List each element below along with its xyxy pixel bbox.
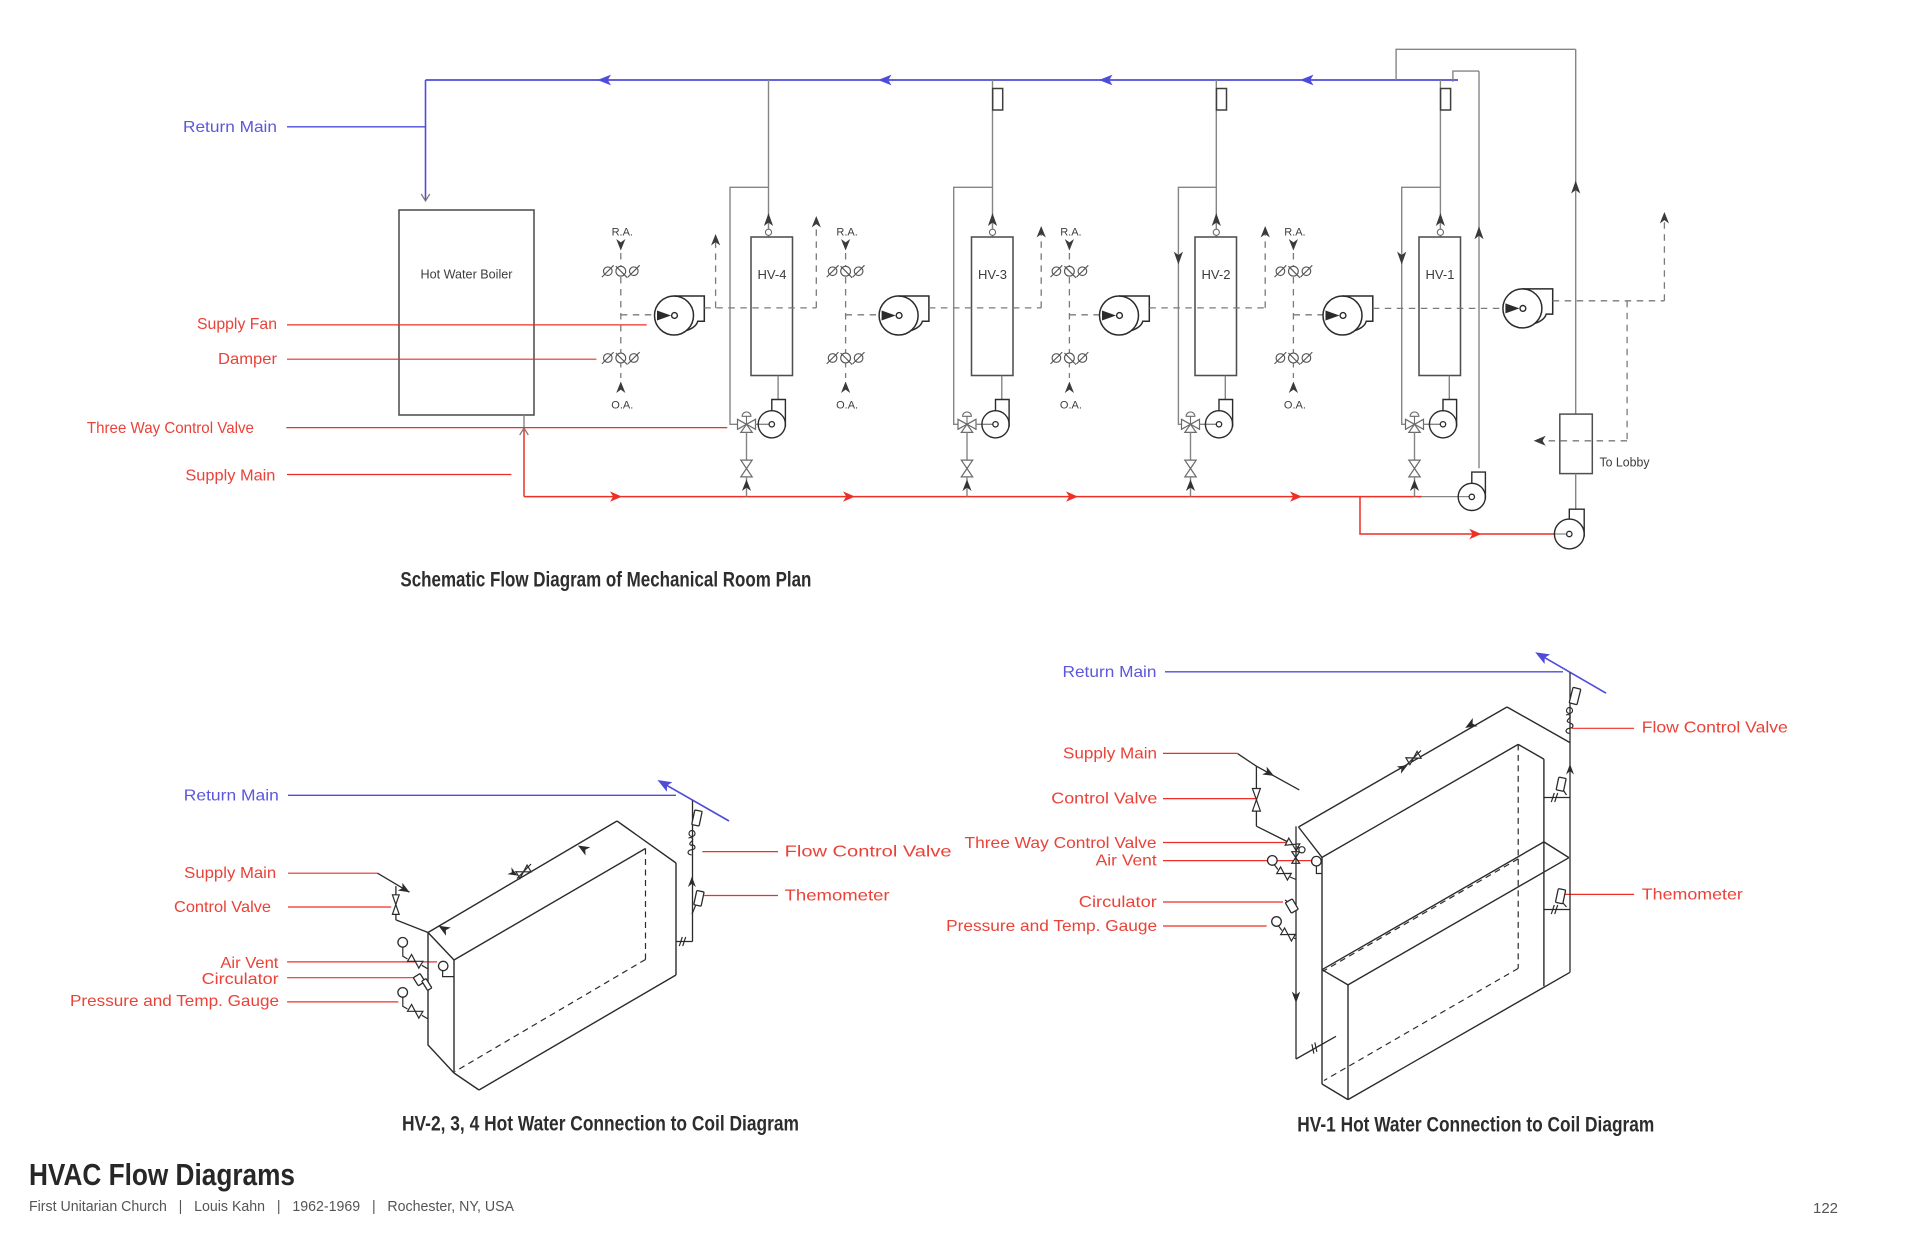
wire HV-2 supply tap	[1190, 477, 1192, 497]
wire HV-2 coil feed	[1224, 376, 1226, 400]
wire to-lobby riser upper	[1575, 49, 1577, 414]
fitting on HV-2 riser	[1217, 89, 1227, 111]
air vent (left diagram)	[439, 961, 448, 970]
supply fan 4	[1323, 296, 1373, 335]
wire supply drop (right diagram)	[1295, 826, 1297, 1059]
label line circulator right	[1163, 901, 1283, 903]
label line flow control valve left	[702, 851, 778, 853]
vent valve cluster (right diagram)	[1268, 856, 1278, 866]
three-way control valve (right diagram)	[1285, 838, 1292, 845]
exhaust arrow 4	[1261, 226, 1270, 238]
wire HV-4 valve to gate valve	[746, 432, 748, 460]
wire HV-1 valve to pump	[1424, 423, 1444, 425]
HV-3 riser flow arrow	[988, 213, 997, 226]
svg-text:HV-3: HV-3	[978, 268, 1007, 282]
wire return main (blue)	[426, 79, 1459, 81]
pipe break (left diagram)	[679, 937, 685, 946]
svg-text:Flow Control Valve: Flow Control Valve	[785, 844, 952, 861]
label line supply fan	[287, 324, 647, 326]
svg-text:Supply Main: Supply Main	[185, 467, 275, 484]
supply main flow arrow 4	[1290, 491, 1302, 501]
return main arrow (left diagram)	[658, 780, 673, 792]
dashed duct to fan 1	[621, 314, 655, 316]
exhaust duct 2	[815, 218, 817, 308]
damper row lower 4	[1275, 352, 1313, 365]
dashed duct to fan 2	[846, 314, 880, 316]
wire HV-3 valve to pump	[976, 423, 996, 425]
wire return pump 2 inlet	[1554, 533, 1569, 535]
coil top jog (right diagram)	[1518, 744, 1544, 759]
svg-text:O.A.: O.A.	[1284, 400, 1306, 412]
circulator (right diagram)	[1285, 899, 1298, 913]
wire supply branch to return pump	[1360, 497, 1554, 534]
svg-text:Air Vent: Air Vent	[1096, 852, 1158, 869]
return main flow arrow 1	[598, 75, 612, 86]
wire return main drop to boiler	[425, 80, 427, 200]
supply branch flow arrow	[1469, 529, 1481, 539]
damper row lower 3	[1051, 352, 1089, 365]
HV-1 riser flow arrow	[1436, 213, 1445, 226]
wire return connector (left diagram)	[676, 941, 693, 943]
svg-text:Supply Fan: Supply Fan	[197, 316, 277, 333]
svg-text:Damper: Damper	[218, 351, 278, 368]
wire HV-2 valve to pump	[1200, 423, 1220, 425]
vent valve cluster (left diagram)	[398, 938, 408, 948]
circulator pump HV-3	[982, 400, 1009, 438]
label line supply main right	[1163, 752, 1238, 754]
label line air vent right	[1163, 860, 1313, 862]
coil lower front-left vertical (right diagram)	[1347, 985, 1349, 1100]
coil hidden bottom edge (right diagram)	[1324, 968, 1518, 1080]
return air dashed duct 3	[1068, 253, 1070, 378]
damper row lower 2	[827, 352, 865, 365]
circulator pump HV-2	[1205, 400, 1232, 438]
return main flow arrow 2	[878, 75, 892, 86]
wire HV-1 supply tap	[1414, 477, 1416, 497]
svg-text:Return Main: Return Main	[183, 119, 277, 136]
coil header pipe (right diagram)	[1299, 707, 1508, 827]
wire HV-1 left return pipe	[1402, 187, 1441, 424]
label line circulator left	[287, 977, 415, 979]
dashed duct fan5 outlet	[1553, 300, 1665, 302]
svg-text:Supply Main: Supply Main	[184, 865, 276, 882]
unit HV-3 box	[972, 237, 1014, 376]
O.A. arrow 3	[1065, 382, 1074, 394]
coil midline upper (right diagram)	[1322, 842, 1544, 970]
control valve (right diagram)	[1252, 789, 1260, 812]
arrowhead supply into boiler	[520, 428, 529, 435]
label line control valve right	[1163, 798, 1255, 800]
flow control valve (right diagram)	[1566, 723, 1573, 733]
wire HV-4 supply tap	[746, 477, 748, 497]
air vent (right diagram)	[1312, 856, 1322, 866]
dashed duct fan3 outlet	[1149, 307, 1265, 309]
header arrow b (right)	[1465, 718, 1477, 728]
coil header pipe top (left diagram)	[428, 821, 617, 933]
lower thermometer connector (right diagram)	[1544, 909, 1570, 911]
label line pressure right	[1163, 925, 1267, 927]
flow element (left diagram)	[692, 810, 702, 826]
wire HV-3 valve to gate valve	[966, 432, 968, 460]
wire HV-3 coil feed	[1001, 376, 1003, 400]
return main arrow (right diagram)	[1535, 652, 1550, 664]
label line supply main	[287, 474, 511, 476]
header arrow into valve	[507, 867, 517, 875]
wire supply main (red)	[523, 430, 525, 497]
R.A. arrow 2	[841, 239, 850, 251]
svg-text:122: 122	[1813, 1200, 1838, 1217]
wire supply diagonal (right diagram)	[1238, 754, 1257, 767]
coil edge top-right (left diagram)	[617, 821, 676, 863]
header flow arrow b	[578, 846, 590, 856]
wire control valve drop (right diagram)	[1255, 766, 1257, 826]
exhaust arrow 1	[711, 234, 720, 246]
svg-text:To Lobby: To Lobby	[1600, 455, 1650, 470]
dashed duct to lobby vertical	[1626, 301, 1628, 441]
coil bottom front edge (right diagram)	[1348, 972, 1570, 1099]
HV-2 supply flow arrow	[1186, 480, 1195, 492]
coil top-left depth edge (right diagram)	[1299, 827, 1323, 857]
supply arrow (right diagram)	[1262, 767, 1274, 776]
wire HV-2 valve to gate valve	[1190, 432, 1192, 460]
pipe break lower (right diagram)	[1309, 1042, 1319, 1053]
damper row lower 1	[602, 352, 640, 365]
pump riser B flow arrow	[1474, 226, 1483, 239]
HV-3 supply flow arrow	[962, 480, 971, 492]
svg-text:Three Way Control Valve: Three Way Control Valve	[965, 835, 1157, 852]
coil bottom front edge (left diagram)	[479, 975, 676, 1090]
O.A. arrow 4	[1289, 382, 1298, 394]
coil front top edge (left diagram)	[454, 849, 646, 961]
svg-text:Control Valve: Control Valve	[1051, 791, 1157, 808]
wire HV-1 coil feed	[1448, 376, 1450, 400]
supply fan 3	[1100, 296, 1150, 335]
coil hidden lower vertical (right diagram)	[1517, 859, 1519, 969]
upper thermometer connector (right diagram)	[1544, 797, 1570, 799]
coil left end face (left diagram)	[428, 933, 454, 1074]
HV-4 riser flow arrow	[764, 213, 773, 226]
svg-text:HVAC Flow Diagrams: HVAC Flow Diagrams	[29, 1157, 295, 1192]
wire HV-3 riser to return main	[992, 80, 994, 237]
return air dashed duct 1	[620, 253, 622, 378]
wire HV-3 left return pipe	[954, 187, 993, 424]
HV-2 riser flow arrow	[1212, 213, 1221, 226]
wire HV-4 coil feed	[777, 376, 779, 400]
supply arrow (left diagram)	[398, 883, 410, 893]
svg-text:O.A.: O.A.	[1060, 400, 1082, 412]
svg-text:Flow Control Valve: Flow Control Valve	[1642, 720, 1788, 737]
return main flow arrow 4	[1300, 75, 1314, 86]
dashed duct fan2 outlet	[929, 307, 1041, 309]
return main flow arrow 3	[1099, 75, 1113, 86]
wire boiler supply outlet	[523, 415, 525, 430]
svg-text:First Unitarian Church | L: First Unitarian Church | Louis Kahn | 19…	[29, 1198, 514, 1215]
coil front top edge (right diagram)	[1322, 744, 1518, 857]
exhaust arrow 5	[1660, 212, 1669, 224]
thermometer (left diagram)	[694, 890, 704, 906]
wire supply diagonal (left diagram)	[378, 873, 410, 892]
HV-2 riser union circle	[1213, 229, 1219, 235]
svg-text:Air Vent: Air Vent	[220, 955, 279, 972]
HV-3 riser union circle	[989, 229, 995, 235]
exhaust duct 5	[1663, 214, 1665, 301]
svg-text:Return Main: Return Main	[184, 787, 279, 804]
coil hidden right edge (left diagram)	[645, 849, 647, 960]
flow element (right diagram)	[1569, 687, 1581, 704]
dashed duct fan4 outlet to fan5	[1373, 307, 1503, 309]
exhaust arrow 3	[1037, 226, 1046, 238]
svg-text:Pressure and Temp. Gauge: Pressure and Temp. Gauge	[70, 993, 279, 1010]
wire HV-4 left return pipe	[730, 187, 769, 424]
gate valve HV-4	[741, 460, 752, 477]
to-lobby riser flow arrow	[1571, 181, 1580, 194]
svg-text:Hot Water Boiler: Hot Water Boiler	[421, 268, 513, 282]
wire lower coil jumper (right diagram)	[1296, 1036, 1336, 1059]
svg-text:HV-1 Hot Water Connection to C: HV-1 Hot Water Connection to Coil Diagra…	[1297, 1113, 1654, 1137]
dashed duct fan1 outlet	[704, 307, 816, 309]
exhaust duct 4	[1264, 228, 1266, 308]
label line return main left	[288, 794, 676, 796]
svg-text:HV-4: HV-4	[758, 268, 787, 282]
dashed duct to lobby horizontal	[1535, 440, 1627, 442]
R.A. arrow 1	[616, 239, 625, 251]
thermometer (right diagram)	[1555, 889, 1565, 904]
svg-text:R.A.: R.A.	[612, 227, 633, 239]
fitting on HV-1 riser	[1441, 89, 1451, 111]
return air dashed duct 2	[845, 253, 847, 378]
circulator pump HV-1	[1429, 400, 1456, 438]
unit HV-4 box	[751, 237, 793, 376]
three-way control valve HV-1	[1406, 412, 1424, 433]
three-way control valve HV-3	[958, 412, 976, 432]
svg-text:R.A.: R.A.	[836, 227, 857, 239]
coil bottom left depth edge (left diagram)	[454, 1073, 479, 1090]
control valve (left diagram)	[392, 895, 399, 915]
coil front-left vertical (left diagram)	[453, 960, 455, 1073]
header arrow into valve (right)	[1397, 765, 1408, 774]
gate valve HV-1	[1409, 460, 1420, 477]
damper row upper 1	[602, 265, 640, 278]
arrowhead into boiler	[421, 194, 430, 201]
circulator (left diagram)	[413, 974, 425, 986]
coil hidden right vertical (right diagram)	[1517, 744, 1519, 859]
unit HV-1 box	[1419, 237, 1461, 376]
damper row upper 3	[1051, 265, 1089, 278]
coil front-left vertical (right diagram)	[1321, 857, 1323, 1084]
supply main flow arrow 2	[843, 491, 855, 501]
label line return main right	[1165, 671, 1563, 673]
wire HV-4 riser to return main	[768, 80, 770, 237]
header valve (right diagram)	[1406, 758, 1414, 765]
svg-text:R.A.: R.A.	[1060, 227, 1081, 239]
svg-text:HV-1: HV-1	[1426, 268, 1455, 282]
pressure gauge cluster (right diagram)	[1272, 917, 1282, 927]
coil hidden bottom edge (left diagram)	[455, 960, 646, 1072]
wire to-lobby riser lower	[1575, 474, 1577, 509]
return riser arrow (right diagram)	[1566, 764, 1574, 775]
O.A. arrow 1	[616, 382, 625, 394]
svg-text:O.A.: O.A.	[611, 400, 633, 412]
squiggle upper (left diagram)	[689, 831, 695, 837]
label line return main	[287, 126, 426, 128]
supply fan 5	[1503, 289, 1553, 328]
label line three way control valve	[286, 427, 727, 429]
HV-1 left pipe flow arrow	[1397, 252, 1406, 265]
balancing valve on header	[516, 872, 524, 879]
supply main flow arrow 3	[1066, 491, 1078, 501]
svg-text:HV-2, 3, 4 Hot Water Connectio: HV-2, 3, 4 Hot Water Connection to Coil …	[402, 1112, 799, 1136]
supply fan 2	[879, 296, 929, 335]
O.A. arrow 2	[841, 382, 850, 394]
boiler Hot Water Boiler	[399, 210, 534, 415]
wire HV-3 supply tap	[966, 477, 968, 497]
wire red main to return pump 1	[1422, 496, 1459, 498]
supply drop arrow (right diagram)	[1292, 992, 1301, 1004]
coil mid jog right (right diagram)	[1544, 842, 1569, 858]
exhaust arrow 2	[812, 216, 821, 228]
label line flow control valve right	[1572, 727, 1634, 729]
wire HV-4 valve to pump	[756, 423, 772, 425]
header flow arrow a	[439, 926, 451, 936]
wire to three-way valve (right diagram)	[1256, 826, 1289, 842]
label line air vent left	[287, 961, 437, 963]
return riser arrow (left diagram)	[688, 877, 696, 888]
svg-text:Themometer: Themometer	[1642, 886, 1744, 903]
label line supply main left	[288, 872, 378, 874]
squiggle upper (right diagram)	[1567, 708, 1573, 714]
HV-1 riser union circle	[1437, 229, 1443, 235]
duct To Lobby box	[1560, 414, 1593, 474]
three-way control valve HV-4	[738, 412, 756, 433]
svg-text:Supply Main: Supply Main	[1063, 745, 1157, 762]
svg-text:Themometer: Themometer	[785, 888, 891, 905]
wire return riser (right diagram)	[1569, 673, 1571, 973]
exhaust duct 1	[715, 236, 717, 308]
flow control valve (left diagram)	[688, 845, 695, 855]
label line themometer right	[1565, 893, 1634, 895]
dashed duct to fan 3	[1069, 314, 1099, 316]
wire pump riser B	[1478, 71, 1480, 468]
svg-text:O.A.: O.A.	[836, 400, 858, 412]
wire return riser junction B	[1453, 71, 1479, 82]
svg-text:Pressure and Temp. Gauge: Pressure and Temp. Gauge	[946, 918, 1157, 935]
upper thermometer (right diagram)	[1556, 777, 1566, 791]
wire return main diagonal (left diagram)	[662, 782, 730, 821]
label line pressure gauge left	[287, 1001, 398, 1003]
to lobby duct arrow	[1534, 436, 1546, 446]
wire into coil corner (left diagram)	[396, 920, 428, 933]
gate valve HV-3	[961, 460, 972, 477]
wire return main diagonal (right diagram)	[1539, 654, 1606, 693]
coil midline lower (right diagram)	[1348, 858, 1569, 985]
coil right front vertical (right diagram)	[1543, 759, 1545, 986]
svg-text:R.A.: R.A.	[1284, 227, 1305, 239]
label line damper	[287, 358, 596, 360]
label line three way right	[1163, 842, 1286, 844]
label line themometer left	[704, 895, 778, 897]
svg-text:Schematic Flow Diagram of Mech: Schematic Flow Diagram of Mechanical Roo…	[400, 567, 811, 591]
coil bottom-left depth edge (right diagram)	[1322, 1084, 1348, 1100]
upper pipe break (right diagram)	[1551, 793, 1557, 802]
coil mid depth edge (right diagram)	[1322, 970, 1348, 985]
coil right return drop (left diagram)	[675, 863, 677, 975]
svg-text:Three Way Control Valve: Three Way Control Valve	[87, 420, 254, 437]
return air dashed duct 4	[1292, 253, 1294, 378]
R.A. arrow 4	[1289, 239, 1298, 251]
unit HV-2 box	[1195, 237, 1237, 376]
svg-text:Circulator: Circulator	[202, 971, 280, 988]
damper row upper 2	[827, 265, 865, 278]
pressure gauge cluster (left diagram)	[398, 988, 408, 998]
coil top-right depth edge (right diagram)	[1507, 707, 1570, 743]
dashed duct to fan 4	[1293, 314, 1323, 316]
exhaust duct 3	[1040, 228, 1042, 308]
wire HV-1 riser to return main	[1439, 80, 1441, 237]
wire coil return riser (left diagram)	[692, 801, 694, 942]
svg-text:Circulator: Circulator	[1079, 894, 1158, 911]
HV-4 supply flow arrow	[742, 480, 751, 492]
lower pipe break (right diagram)	[1551, 905, 1557, 914]
circulator pump HV-4	[758, 400, 785, 438]
return pump 1	[1458, 472, 1485, 510]
HV-2 left pipe flow arrow	[1174, 252, 1183, 265]
HV-4 riser union circle	[765, 229, 771, 235]
gate valve HV-2	[1185, 460, 1196, 477]
coil hidden mid edge (right diagram)	[1323, 859, 1518, 971]
HV-1 supply flow arrow	[1410, 480, 1419, 492]
svg-text:HV-2: HV-2	[1202, 268, 1231, 282]
wire control valve drop (left diagram)	[395, 886, 397, 920]
supply main flow arrow 1	[610, 491, 622, 501]
return pump 2	[1554, 509, 1584, 549]
three-way control valve HV-2	[1182, 412, 1200, 433]
fitting on HV-3 riser	[993, 89, 1003, 111]
wire return riser junction A	[1396, 49, 1576, 80]
wire HV-2 riser to return main	[1215, 80, 1217, 237]
label line control valve left	[288, 906, 391, 908]
wire HV-2 left return pipe	[1178, 187, 1216, 424]
svg-text:Control Valve: Control Valve	[174, 899, 271, 916]
wire HV-1 valve to gate valve	[1414, 432, 1416, 460]
R.A. arrow 3	[1065, 239, 1074, 251]
svg-text:Return Main: Return Main	[1063, 664, 1157, 681]
supply fan 1	[655, 296, 705, 335]
damper row upper 4	[1275, 265, 1313, 278]
